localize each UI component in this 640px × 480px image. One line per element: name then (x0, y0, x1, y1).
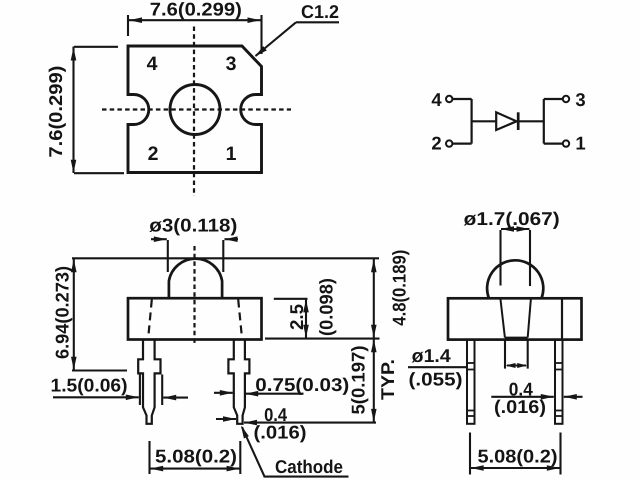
dimension 7.6(0.299) vertical left (74, 47, 125, 174)
svg-text:0.75(0.03): 0.75(0.03) (255, 374, 349, 395)
shared extension line at dome top (72, 257, 379, 259)
pin 3 terminal circle (563, 96, 569, 102)
schematic label 2 (431, 133, 441, 154)
package body outline with chamfer and side notches (128, 46, 262, 173)
svg-text:1.5(0.06): 1.5(0.06) (51, 375, 128, 396)
horizontal center line (dashed) (102, 108, 291, 110)
pin 1 terminal circle (563, 140, 569, 146)
side left lead (467, 340, 475, 424)
svg-text:5.08(0.2): 5.08(0.2) (155, 446, 237, 467)
svg-text:4: 4 (431, 89, 442, 110)
dimension 7.6(0.299) horizontal top (128, 15, 262, 54)
vertical center line front view (193, 246, 195, 343)
schematic label 3 (575, 89, 585, 110)
svg-text:2: 2 (148, 143, 159, 165)
epoxy dome (169, 259, 222, 299)
lead crimp bands (467, 363, 563, 416)
wire right bus to pin 1 (544, 143, 563, 145)
left bus vertical wire (471, 99, 473, 144)
wire pin4 to left bus (452, 98, 471, 100)
pin label 4 (147, 53, 158, 75)
svg-text:(.055): (.055) (409, 369, 463, 390)
svg-text:7.6(0.299): 7.6(0.299) (45, 66, 66, 158)
wire left bus to diode anode (472, 120, 497, 122)
diode cathode bar (517, 112, 520, 130)
wire pin2 to left bus (452, 143, 471, 145)
dimension ø1.4(.055) (408, 340, 528, 369)
svg-text:4.8(0.189): 4.8(0.189) (389, 250, 410, 326)
svg-text:Cathode: Cathode (275, 456, 343, 477)
center hole circle (170, 85, 220, 135)
pin label 3 (226, 53, 237, 75)
Cathode callout leader (242, 427, 349, 477)
side right lead (555, 340, 563, 424)
chamfer callout C1.2 with leader arrow (256, 22, 340, 56)
dimension 5.08(0.2) front (150, 441, 241, 474)
pin label 1 (226, 143, 237, 165)
right bus vertical wire (543, 99, 545, 144)
reflector pedestal bottom (505, 337, 528, 339)
wire right bus to pin 3 (544, 98, 563, 100)
side dome (487, 260, 543, 298)
svg-text:TYP.: TYP. (377, 359, 398, 400)
pin 2 terminal circle (446, 140, 452, 146)
dimension 4.8(0.189) and 5(0.197) TYP. vertical line (373, 259, 375, 423)
reflector pedestal left slant (500, 299, 505, 338)
svg-text:5(0.197): 5(0.197) (348, 346, 369, 415)
left lead with standoff and tip (138, 340, 160, 424)
dimension 5.08(0.2) side (470, 433, 561, 475)
dimension 1.5(0.06) (53, 375, 188, 406)
svg-text:1: 1 (575, 133, 585, 154)
svg-text:4: 4 (147, 53, 158, 75)
dimension 0.75(0.03) (214, 392, 304, 395)
hidden edge dashed right (238, 300, 242, 339)
svg-text:3: 3 (575, 89, 585, 110)
vertical center line (dashed) (193, 27, 195, 197)
dimension ø1.7(.067) (501, 229, 531, 286)
hidden edge dashed left (148, 300, 152, 339)
svg-text:1: 1 (226, 143, 237, 165)
svg-text:2: 2 (431, 133, 441, 154)
svg-text:ø1.4: ø1.4 (412, 345, 452, 366)
svg-text:(.016): (.016) (494, 396, 546, 417)
side flange rectangle (448, 298, 582, 339)
schematic label 4 (431, 89, 442, 110)
svg-text:C1.2: C1.2 (301, 1, 339, 22)
svg-text:5.08(0.2): 5.08(0.2) (478, 446, 558, 467)
right lead (cathode) with standoff and tip (228, 340, 249, 424)
dimension 6.94(0.273) (72, 258, 127, 370)
diode D1 triangle (496, 112, 516, 130)
svg-text:6.94(0.273): 6.94(0.273) (52, 266, 73, 359)
reflector pedestal right slant (528, 299, 531, 338)
dimension 2.5(0.098) (274, 299, 308, 339)
dimension ø3(0.118) (151, 239, 238, 272)
svg-text:(.016): (.016) (254, 422, 307, 443)
svg-text:ø1.7(.067): ø1.7(.067) (464, 208, 560, 229)
pin 4 terminal circle (446, 96, 452, 102)
svg-text:ø3(0.118): ø3(0.118) (149, 215, 237, 236)
dimension 0.4(.016) at cathode tip (216, 419, 376, 423)
svg-text:3: 3 (226, 53, 237, 75)
svg-text:7.6(0.299): 7.6(0.299) (150, 0, 242, 20)
chamfer edge line inside flange (561, 298, 563, 339)
extension line at flange bottom (265, 338, 380, 340)
schematic label 1 (575, 133, 585, 154)
flange body rectangle (128, 298, 262, 339)
svg-text:2.5: 2.5 (286, 304, 307, 330)
wire diode cathode to right bus (518, 120, 544, 122)
dimension 0.4(.016) side (491, 396, 582, 398)
svg-text:(0.098): (0.098) (316, 278, 337, 336)
pin label 2 (148, 143, 159, 165)
